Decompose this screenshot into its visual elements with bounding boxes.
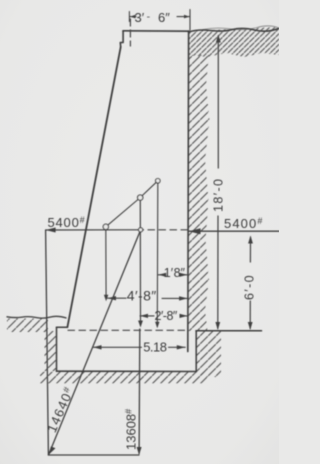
wall battered front face — [67, 47, 120, 327]
footing right edge — [195, 331, 197, 372]
wall back face — [187, 31, 190, 352]
weight vector small arrow — [138, 321, 143, 328]
ground line bottom right — [196, 330, 262, 332]
earth hatching under footing — [40, 372, 207, 384]
weight vector line lower (13608#) — [138, 329, 141, 454]
5400# right arrowhead — [189, 228, 201, 234]
wall outline: top of coping — [123, 30, 189, 32]
5400# right dimension line — [189, 230, 280, 232]
dimension 18'-0 line lower — [217, 216, 219, 329]
extension from A down — [105, 230, 107, 299]
line of action A-B — [108, 200, 138, 225]
force polygon bottom line — [48, 454, 139, 456]
earth hatching left of footing — [45, 331, 57, 371]
earth hatching under left ground line — [7, 319, 48, 333]
weight vector line upper — [139, 200, 141, 326]
dimension 6'-0 line upper — [249, 237, 251, 262]
footing left edge — [56, 327, 58, 371]
node circle A — [103, 224, 108, 229]
svg-text:6″: 6″ — [158, 10, 170, 25]
svg-text:4′-8″: 4′-8″ — [127, 288, 157, 304]
footing toe top — [57, 326, 68, 328]
ground line top right (wavy) — [189, 28, 279, 32]
line of action B-C — [142, 182, 156, 195]
resultant 14640# line — [49, 230, 141, 454]
small arrow at A extension tip — [104, 295, 108, 302]
wall coping left edge and notch — [120, 31, 123, 47]
weight vector bottom arrow — [137, 447, 142, 455]
svg-text:3′: 3′ — [135, 10, 145, 25]
svg-text:8″: 8″ — [174, 266, 186, 280]
dashed extension below 3'-6" — [129, 19, 131, 46]
earth hatching band along wall back face — [188, 55, 210, 331]
hidden joint line at footing top (dashed) — [68, 329, 188, 331]
dimension 4'-8" — [108, 297, 188, 299]
svg-text:1′: 1′ — [164, 266, 174, 280]
dimension 1'8" — [158, 274, 187, 276]
svg-text:-: - — [147, 11, 151, 23]
resultant arrowhead — [49, 446, 56, 454]
extension from C down — [156, 183, 159, 326]
5400# left dimension line — [46, 229, 144, 231]
earth hatching top right band — [188, 27, 279, 57]
svg-text:2′-8″: 2′-8″ — [155, 309, 178, 323]
ground line left (wavy) — [7, 316, 66, 318]
svg-text:13608#: 13608# — [124, 409, 139, 450]
small arrow at C extension tip — [155, 322, 159, 329]
svg-text:18′-0: 18′-0 — [212, 178, 226, 212]
ground line top right faint upper trace — [203, 26, 279, 30]
svg-text:6′-0: 6′-0 — [243, 274, 257, 300]
earth hatching right of footing — [196, 331, 221, 377]
dimension 3'-6" line — [129, 10, 190, 31]
node circle B — [138, 195, 143, 200]
5400# left arrowhead — [46, 228, 56, 233]
dimension 6'-0 down arrow — [248, 322, 253, 330]
dimension 6'-0 up arrow — [248, 236, 253, 244]
dimension 18'-0 line upper — [217, 36, 219, 168]
node circle D — [139, 228, 143, 232]
dimension 5.18 — [93, 346, 185, 348]
node circle C — [156, 179, 161, 184]
svg-text:5.18: 5.18 — [143, 340, 167, 355]
dimension 18'-0 down arrow — [215, 322, 220, 330]
dimension 18'-0 up arrow — [216, 35, 221, 43]
dimension 6'-0 line lower — [249, 301, 251, 329]
dimension 3'-6" arrows — [130, 15, 190, 19]
force polygon left vertical — [46, 230, 49, 455]
dimension 2'-8" — [140, 315, 188, 317]
footing bottom — [57, 370, 197, 372]
5400# left dashed continuation — [148, 229, 188, 231]
